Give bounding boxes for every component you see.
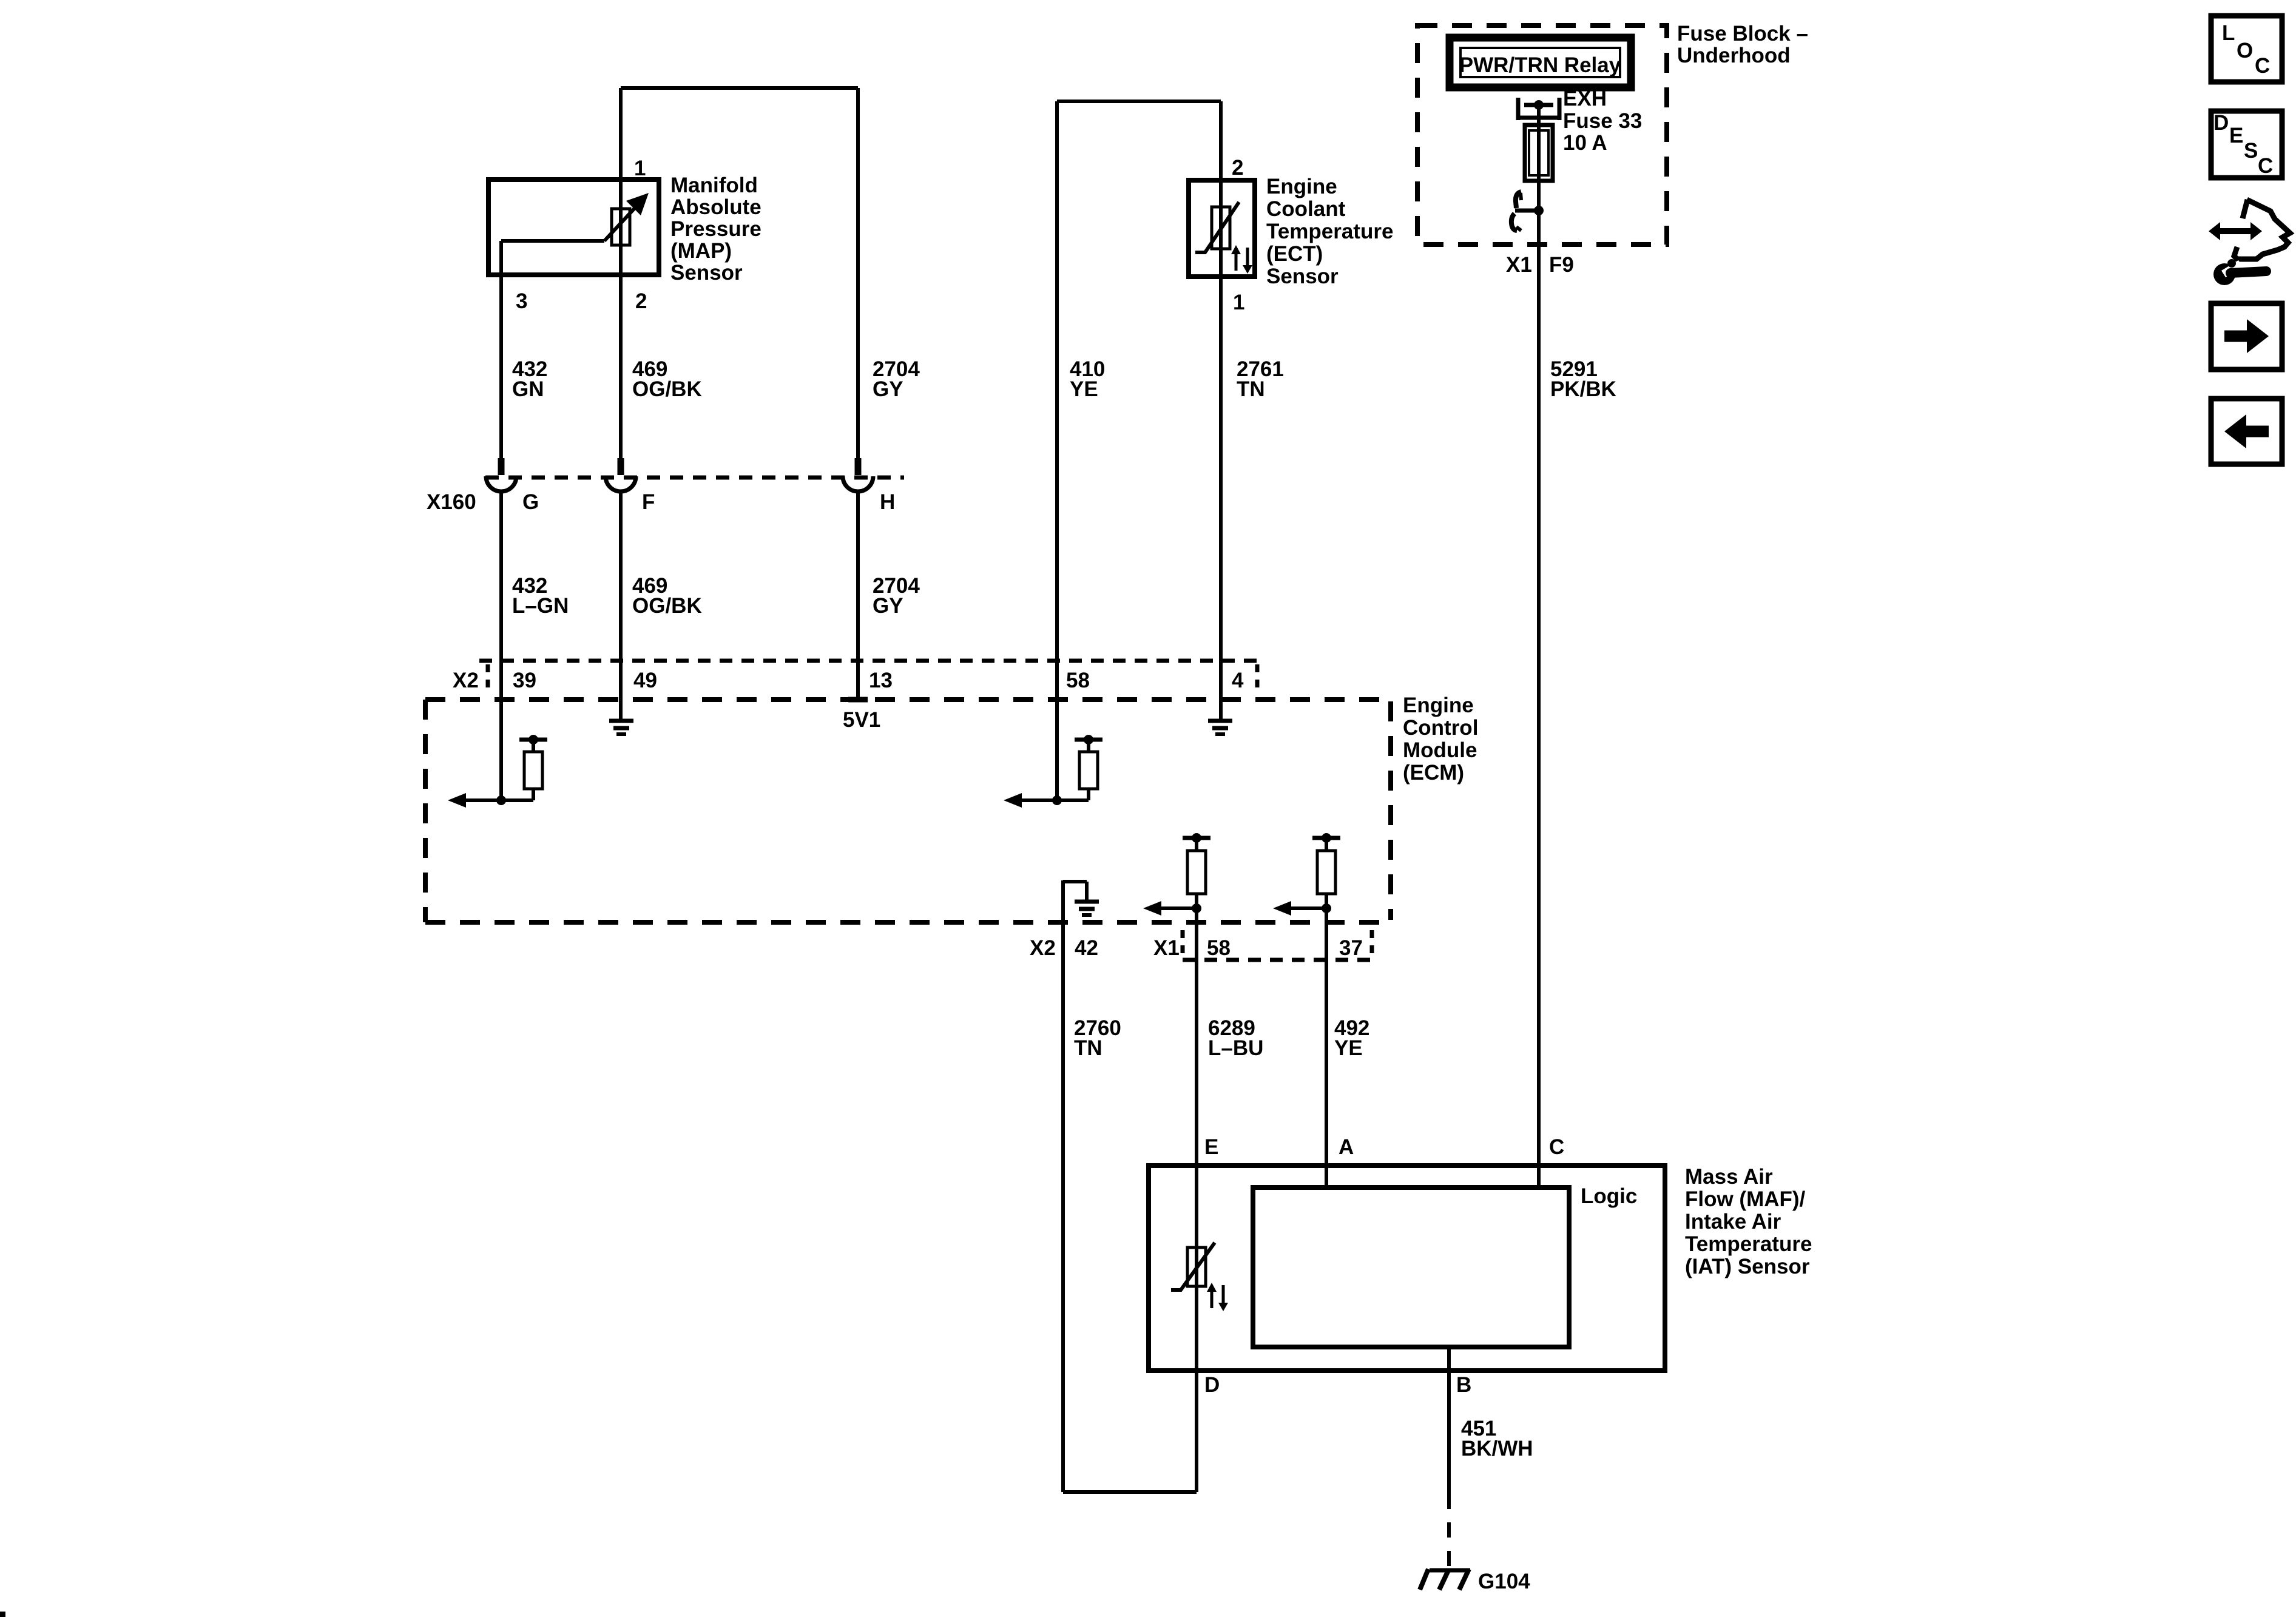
wire 5291 — [1537, 211, 1541, 1166]
MAP sensor box — [488, 180, 659, 275]
svg-text:Logic: Logic — [1581, 1184, 1637, 1208]
pin 13 terminal bar — [848, 697, 868, 703]
svg-text:L–GN: L–GN — [512, 594, 569, 618]
MAF thermistor arrows — [1210, 1290, 1214, 1308]
wire MAP pin2 through box — [619, 180, 623, 458]
svg-text:2: 2 — [635, 289, 647, 313]
svg-text:42: 42 — [1075, 936, 1098, 960]
X160 pin H — [855, 458, 862, 475]
svg-text:E: E — [2229, 124, 2243, 147]
wire 432 from MAP pin3 — [499, 275, 503, 458]
svg-text:58: 58 — [1207, 936, 1231, 960]
wire 469 lower — [619, 493, 623, 719]
icon back arrow box — [2211, 399, 2282, 464]
wire 2704 lower — [856, 493, 860, 700]
svg-text:PWR/TRN Relay: PWR/TRN Relay — [1459, 53, 1621, 77]
ECM pullup resistor for pin 58 — [1075, 738, 1102, 742]
icon LOC box — [2211, 16, 2282, 82]
X1 connector dotted box — [1181, 930, 1185, 960]
ECT signal arrows — [1235, 252, 1238, 271]
svg-text:Fuse 33: Fuse 33 — [1563, 109, 1642, 133]
wire 2761 upper — [1219, 101, 1223, 180]
svg-text:2: 2 — [1232, 156, 1243, 180]
svg-text:37: 37 — [1339, 936, 1363, 960]
svg-text:5V1: 5V1 — [843, 708, 880, 732]
page corner mark — [0, 1612, 5, 1617]
ECM pullup resistor for X1-37 — [1312, 836, 1340, 840]
relay output terminal — [1516, 98, 1521, 120]
svg-text:49: 49 — [633, 669, 657, 692]
svg-text:Module: Module — [1403, 738, 1477, 762]
svg-text:GY: GY — [873, 377, 903, 401]
svg-text:Intake Air: Intake Air — [1685, 1210, 1781, 1234]
svg-text:Control: Control — [1403, 716, 1478, 740]
fuse output terminal hook — [1516, 192, 1521, 208]
icon vehicle with wrench — [2234, 200, 2290, 259]
MAF sensor box — [1149, 1166, 1665, 1371]
ECM pullup resistor for X1-58 — [1183, 836, 1210, 840]
svg-text:L: L — [2222, 21, 2235, 45]
svg-text:X1: X1 — [1506, 253, 1532, 277]
X160 pin F — [618, 458, 624, 475]
svg-text:C: C — [1549, 1135, 1564, 1159]
svg-text:F: F — [642, 490, 655, 514]
wire D loop to 2760 — [1195, 1371, 1198, 1492]
wire 2761 lower — [1219, 277, 1223, 719]
ECM dashed box — [425, 697, 1391, 702]
svg-text:X2: X2 — [1030, 936, 1056, 960]
wire B from logic — [1447, 1347, 1451, 1494]
svg-text:BK/WH: BK/WH — [1461, 1437, 1533, 1460]
X2 bracket left — [486, 664, 490, 695]
connector X160 dashed row — [485, 476, 904, 480]
ECM internal ground hook at pin 42 — [1061, 880, 1065, 922]
svg-text:10 A: 10 A — [1563, 131, 1607, 155]
svg-text:F9: F9 — [1549, 253, 1574, 277]
svg-text:3: 3 — [516, 289, 527, 313]
svg-text:A: A — [1339, 1135, 1354, 1159]
wire 469 top loop (MAP pin1 to 2704 wire) — [621, 86, 858, 90]
svg-text:(IAT) Sensor: (IAT) Sensor — [1685, 1255, 1810, 1278]
svg-text:G104: G104 — [1478, 1570, 1530, 1593]
X160 pin G — [498, 458, 505, 475]
svg-text:H: H — [880, 490, 895, 514]
svg-text:C: C — [2255, 54, 2270, 78]
svg-text:Engine: Engine — [1403, 694, 1474, 717]
svg-text:4: 4 — [1232, 669, 1244, 692]
svg-text:EXH: EXH — [1563, 87, 1607, 110]
wire 492 YE — [1325, 908, 1328, 1166]
wire 2760 TN — [1061, 922, 1065, 1492]
svg-text:TN: TN — [1074, 1036, 1102, 1060]
svg-text:S: S — [2244, 139, 2258, 163]
svg-text:OG/BK: OG/BK — [632, 377, 702, 401]
svg-text:(MAP): (MAP) — [670, 239, 732, 263]
wire 410 inside ECM — [1055, 661, 1059, 800]
wire fuse to terminal — [1537, 181, 1541, 211]
svg-text:39: 39 — [513, 669, 536, 692]
svg-text:B: B — [1456, 1373, 1471, 1397]
fuse block underhood dashed box — [1417, 25, 1667, 245]
wire C inside MAF — [1537, 1166, 1541, 1187]
ECT sensor box — [1189, 180, 1255, 277]
svg-text:Coolant: Coolant — [1266, 197, 1346, 221]
svg-text:Engine: Engine — [1266, 175, 1337, 198]
svg-text:Sensor: Sensor — [670, 261, 743, 285]
svg-text:Fuse Block –: Fuse Block – — [1677, 22, 1808, 46]
ground at ECM pin 49 — [609, 719, 633, 723]
icon DESC box — [2211, 111, 2282, 178]
svg-text:1: 1 — [1233, 291, 1244, 314]
ground G104 — [1430, 1568, 1470, 1573]
svg-text:C: C — [2258, 154, 2273, 178]
MAF thermistor — [1187, 1247, 1206, 1286]
ECT thermistor — [1212, 207, 1230, 249]
svg-text:L–BU: L–BU — [1208, 1036, 1263, 1060]
svg-text:Flow (MAF)/: Flow (MAF)/ — [1685, 1187, 1806, 1211]
svg-text:O: O — [2237, 39, 2253, 62]
svg-text:Underhood: Underhood — [1677, 44, 1791, 67]
svg-text:(ECM): (ECM) — [1403, 761, 1464, 785]
wire A inside MAF — [1325, 1166, 1328, 1187]
svg-text:YE: YE — [1334, 1036, 1363, 1060]
MAF logic box — [1253, 1187, 1569, 1347]
svg-text:13: 13 — [869, 669, 893, 692]
svg-text:G: G — [522, 490, 539, 514]
PWR/TRN relay box — [1450, 38, 1631, 87]
svg-text:Sensor: Sensor — [1266, 265, 1339, 288]
wire relay to fuse — [1537, 105, 1541, 125]
svg-text:YE: YE — [1070, 377, 1098, 401]
svg-text:1: 1 — [634, 157, 646, 180]
fuse EXH Fuse 33 — [1525, 125, 1553, 181]
svg-text:D: D — [2213, 111, 2229, 135]
icon forward arrow box — [2211, 303, 2282, 370]
svg-text:GY: GY — [873, 594, 903, 618]
wire 451 dashed to ground — [1447, 1494, 1451, 1567]
MAP pressure transducer symbol — [501, 239, 604, 243]
svg-text:GN: GN — [512, 377, 544, 401]
wire 432 lower — [499, 493, 503, 800]
svg-text:E: E — [1204, 1135, 1218, 1159]
wire 410 top loop — [1057, 100, 1221, 103]
X2 bracket right — [1255, 664, 1260, 695]
ECM pullup resistor for pin 39 — [519, 738, 547, 742]
svg-text:Temperature: Temperature — [1685, 1232, 1812, 1256]
svg-text:(ECT): (ECT) — [1266, 242, 1323, 266]
svg-text:OG/BK: OG/BK — [632, 594, 702, 618]
wire through ECT box — [1219, 180, 1223, 277]
svg-text:Manifold: Manifold — [670, 174, 758, 197]
svg-text:PK/BK: PK/BK — [1550, 377, 1616, 401]
svg-text:Pressure: Pressure — [670, 217, 761, 241]
svg-text:X160: X160 — [427, 490, 476, 514]
wire 6289 L-BU — [1195, 908, 1198, 1166]
wire E inside MAF — [1195, 1166, 1198, 1371]
svg-text:X2: X2 — [453, 669, 479, 692]
svg-text:TN: TN — [1237, 377, 1265, 401]
svg-text:58: 58 — [1066, 669, 1090, 692]
svg-text:Mass Air: Mass Air — [1685, 1165, 1773, 1189]
svg-text:D: D — [1204, 1373, 1220, 1397]
svg-text:X1: X1 — [1153, 936, 1180, 960]
svg-text:Absolute: Absolute — [670, 195, 761, 219]
svg-text:Temperature: Temperature — [1266, 220, 1393, 243]
ground at ECM pin 4 — [1208, 719, 1232, 723]
connector X2 dotted row — [479, 659, 1261, 663]
